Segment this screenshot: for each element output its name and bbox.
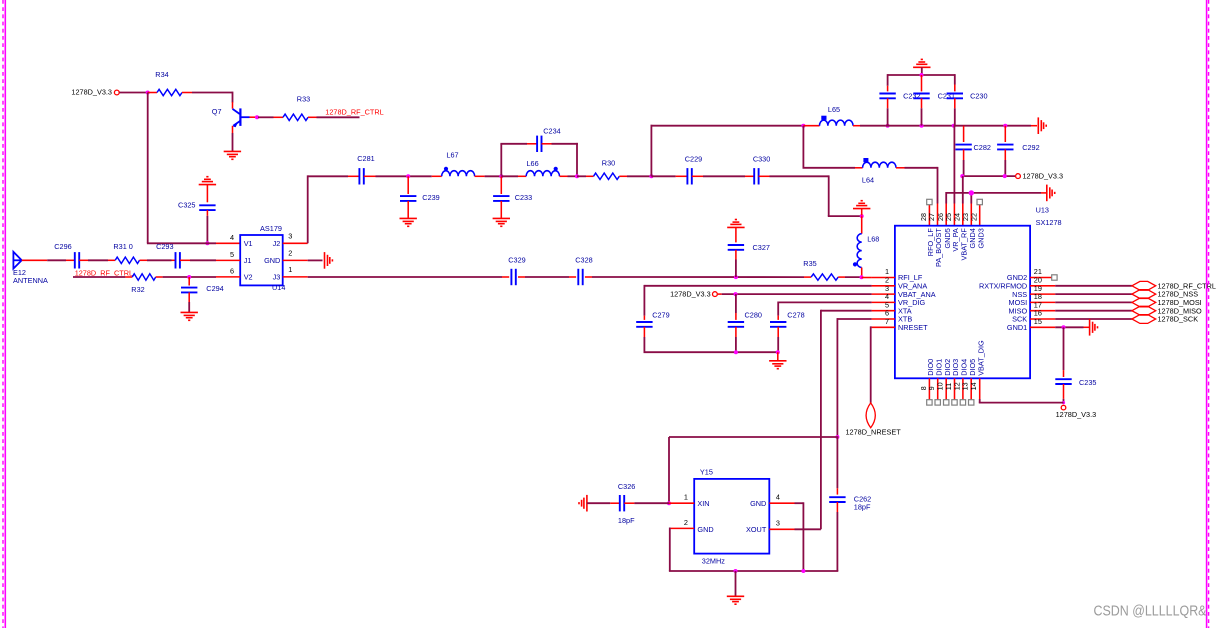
wire C326 to XIN node	[634, 502, 669, 504]
wire node to RFI_LF pin	[862, 277, 872, 279]
junction (GND4 node)	[969, 190, 974, 195]
junction (C292 bottom)	[1003, 174, 1007, 178]
resistor R33	[274, 95, 317, 121]
capacitor C262	[829, 437, 871, 571]
svg-text:C293: C293	[156, 242, 173, 251]
power port 1278D_V3.3 (bottom)	[1056, 405, 1097, 419]
wire XTB run	[837, 318, 871, 437]
svg-text:1278D_RF_CTRL: 1278D_RF_CTRL	[75, 268, 133, 277]
capacitor C232	[879, 86, 920, 126]
pin 6 stub (V2)	[216, 266, 240, 277]
sheet border (left)	[3, 0, 5, 628]
wire C328 to R35	[592, 276, 804, 278]
wire AS179 GND to ground	[308, 259, 323, 261]
wire SCK to port	[1055, 318, 1132, 320]
wire C293 to J1 pin	[190, 259, 216, 261]
capacitor C281	[348, 154, 376, 185]
svg-text:3: 3	[288, 232, 292, 241]
U13 top pin names	[926, 228, 985, 267]
capacitor C233	[493, 176, 532, 218]
svg-text:C325: C325	[178, 200, 195, 209]
Y15 pin 1 stub	[669, 493, 694, 504]
junction (gnd loop / ground)	[734, 569, 738, 573]
svg-text:R31 0: R31 0	[113, 242, 132, 251]
antenna E12	[13, 252, 48, 285]
Y15 pin 2 stub	[671, 518, 695, 529]
svg-text:1278D_SCK: 1278D_SCK	[1158, 315, 1199, 324]
inductor L65	[803, 105, 860, 126]
ground (left of C326)	[579, 495, 587, 512]
svg-text:2: 2	[684, 518, 688, 527]
svg-text:1278D_V3.3: 1278D_V3.3	[670, 290, 711, 299]
junction (C294 node)	[187, 275, 191, 279]
capacitor C231	[913, 75, 955, 126]
svg-text:14: 14	[969, 382, 978, 390]
wire V3.3 to R34	[120, 92, 148, 94]
wire C278 to gnd rail	[777, 337, 779, 352]
pin 3 stub (J2)	[283, 232, 308, 244]
wire MISO to port	[1055, 310, 1132, 312]
junction (C231 bottom)	[920, 124, 924, 128]
junction (gnd loop / GND4)	[801, 569, 805, 573]
resistor R32	[125, 274, 162, 294]
junction (R30/C229 node)	[649, 174, 653, 178]
wire net label to R32	[73, 276, 125, 278]
svg-text:18pF: 18pF	[854, 503, 871, 512]
svg-text:C329: C329	[508, 256, 525, 265]
no-connect (GND2 pin21)	[1052, 275, 1057, 280]
svg-text:C296: C296	[54, 242, 71, 251]
wire R35 to pin1 node	[845, 276, 862, 278]
wire C235 to power node	[1063, 399, 1065, 402]
inductor L64	[855, 158, 905, 185]
svg-text:GND: GND	[750, 499, 766, 508]
wire NSS to port	[1055, 293, 1132, 295]
svg-text:L67: L67	[446, 151, 458, 160]
wire VR_PA column	[953, 126, 955, 226]
junction (R34/V1 node)	[146, 91, 150, 95]
wire Y15 gnd loop	[669, 528, 838, 572]
inductor L66	[501, 159, 577, 177]
svg-text:1278D_RF_CTRL: 1278D_RF_CTRL	[325, 107, 383, 116]
pin RFO_LF stub + no-connect	[927, 199, 932, 225]
junction (C230/VR_PA node)	[952, 124, 956, 128]
svg-text:C234: C234	[543, 126, 560, 135]
capacitor C329	[502, 256, 526, 286]
capacitor C294	[181, 277, 224, 302]
port 1278D_RF_CTRL	[1132, 281, 1216, 290]
svg-text:32MHz: 32MHz	[702, 557, 725, 566]
wire GND1 node down to C235	[1063, 327, 1065, 370]
svg-text:XOUT: XOUT	[746, 525, 767, 534]
wire J2 up to RF line	[308, 175, 348, 243]
capacitor C230	[947, 85, 988, 126]
capacitor C326	[587, 482, 635, 525]
wire to AS179 pin4	[147, 242, 216, 244]
wire base to R33	[258, 116, 274, 118]
svg-text:L65: L65	[828, 105, 840, 114]
capacitor C239	[400, 176, 440, 218]
net label 1278D_RF_CTRL (top)	[325, 107, 383, 116]
wire C234 loop	[500, 143, 578, 176]
junction (C233 node)	[499, 174, 503, 178]
port 1278D_NSS	[1132, 290, 1198, 299]
ground (C294)	[181, 312, 198, 320]
svg-text:XIN: XIN	[697, 499, 709, 508]
wire antenna to C296	[22, 259, 66, 261]
svg-text:1: 1	[288, 265, 292, 274]
junction (C325/V1)	[205, 241, 209, 245]
ground (above L68 node)	[853, 201, 870, 216]
svg-text:C230: C230	[970, 91, 987, 100]
wire R33 to net label	[317, 116, 360, 118]
wire RXTX/RFMOD to port	[1055, 285, 1132, 287]
svg-text:C282: C282	[974, 143, 991, 152]
capacitor C278	[770, 311, 805, 338]
junction (L68/RFI_LF)	[860, 275, 864, 279]
junction (Q7 base node)	[255, 115, 259, 119]
wire R30 node up and across to L65	[651, 125, 804, 177]
ic U13 SX1278 body	[895, 205, 1062, 378]
power port 1278D_V3.3 (mid)	[670, 290, 717, 299]
svg-text:R34: R34	[155, 70, 168, 79]
svg-text:U14: U14	[272, 283, 285, 292]
svg-text:1278D_V3.3: 1278D_V3.3	[71, 88, 112, 97]
svg-text:3: 3	[776, 519, 780, 528]
svg-text:C292: C292	[1022, 143, 1039, 152]
svg-text:1278D_V3.3: 1278D_V3.3	[1056, 410, 1097, 419]
svg-text:C239: C239	[422, 193, 439, 202]
svg-text:SX1278: SX1278	[1036, 218, 1062, 227]
svg-text:U13: U13	[1036, 205, 1049, 214]
svg-text:1278D_NRESET: 1278D_NRESET	[846, 427, 902, 436]
svg-text:C280: C280	[745, 311, 762, 320]
ground (C239)	[400, 218, 417, 226]
ground (crystal)	[727, 596, 744, 604]
wire L64 to PA_BOOST	[905, 167, 938, 226]
svg-text:C235: C235	[1079, 378, 1096, 387]
capacitor C293	[156, 242, 190, 268]
pin GND3 stub + no-connect	[977, 199, 982, 225]
junction (L64 branch)	[801, 124, 805, 128]
svg-text:J1: J1	[244, 256, 252, 265]
junction (VBAT_DIG power node)	[1062, 401, 1065, 404]
svg-text:Q7: Q7	[212, 107, 222, 116]
watermark	[1094, 604, 1207, 620]
svg-text:C326: C326	[618, 482, 635, 491]
svg-text:GND: GND	[697, 525, 713, 534]
svg-text:L68: L68	[867, 235, 879, 244]
wire R31 to C293	[147, 259, 172, 261]
U13 bottom pin numbers	[919, 382, 978, 390]
svg-text:GND1: GND1	[1007, 323, 1027, 332]
svg-text:PA_BOOST: PA_BOOST	[934, 228, 943, 267]
svg-text:ANTENNA: ANTENNA	[13, 276, 48, 285]
U13 right pins	[979, 267, 1055, 332]
ground (GND5/GND4)	[1047, 185, 1055, 202]
wire rail to ground	[777, 352, 779, 360]
svg-text:C327: C327	[753, 243, 770, 252]
svg-text:Y15: Y15	[700, 468, 713, 477]
crystal Y15 body	[694, 468, 769, 566]
junction (C239 node)	[406, 174, 410, 178]
wire C279 to gnd rail	[644, 337, 778, 352]
junction (GND1/C235)	[1062, 325, 1066, 329]
svg-text:18pF: 18pF	[618, 516, 635, 525]
ground (AS179 pin2)	[325, 252, 333, 269]
net label 1278D_RF_CTRL (left)	[75, 268, 133, 277]
wire C296 to R31	[88, 259, 108, 261]
junction (XIN node)	[667, 501, 671, 505]
wire GND5/GND4 to ground	[946, 192, 1046, 226]
svg-text:CSDN @LLLLLQR&: CSDN @LLLLLQR&	[1094, 604, 1207, 620]
junction (C234/L66 node)	[575, 174, 579, 178]
wire C280 to gnd rail	[735, 337, 737, 352]
capacitor C327	[728, 227, 770, 259]
inductor L67	[432, 151, 485, 177]
wire VR_DIG run	[778, 302, 871, 316]
wire R34 to Q7 collector	[192, 92, 233, 103]
wire C327 to RFI line	[735, 260, 737, 278]
ic U14 AS179 body	[240, 224, 285, 292]
U13 top pin numbers	[919, 213, 978, 221]
resistor R34	[148, 70, 192, 96]
port 1278D_MISO	[1132, 306, 1202, 315]
junction (VBAT_RF node)	[960, 174, 964, 178]
svg-text:2: 2	[288, 249, 292, 258]
svg-text:C279: C279	[652, 311, 669, 320]
svg-text:V2: V2	[244, 273, 253, 282]
ground (above C327)	[727, 220, 744, 228]
capacitor C292	[997, 126, 1040, 176]
svg-text:C328: C328	[575, 256, 592, 265]
transistor Q7	[212, 102, 256, 133]
svg-text:C330: C330	[753, 155, 770, 164]
ground (Q7 emitter)	[224, 151, 241, 159]
svg-text:V1: V1	[244, 239, 253, 248]
capacitor C325	[178, 185, 216, 216]
svg-text:C233: C233	[515, 193, 532, 202]
wire L65 to cap bank	[860, 125, 886, 127]
svg-text:GND: GND	[264, 256, 280, 265]
svg-text:C281: C281	[357, 154, 374, 163]
wire MOSI to port	[1055, 301, 1132, 303]
U13 bottom pin names	[926, 340, 985, 376]
junction (C327 node)	[734, 275, 738, 279]
svg-text:R35: R35	[803, 259, 816, 268]
wire C325 to V1 line	[206, 216, 208, 244]
junction (gnd rail C278)	[776, 350, 780, 354]
junction (C232 bottom)	[886, 124, 890, 128]
junction (L68 top node)	[860, 214, 864, 218]
wire V3.3 to VBAT_ANA	[718, 293, 872, 295]
junction (gnd rail C280)	[734, 350, 738, 354]
capacitor C234	[527, 126, 561, 152]
svg-text:GND3: GND3	[976, 228, 985, 248]
junction (XTB/C262 node)	[835, 435, 839, 439]
svg-text:C294: C294	[206, 284, 223, 293]
junction (C280 node)	[734, 292, 738, 296]
wire C330 to L68 node	[770, 175, 862, 216]
svg-text:NRESET: NRESET	[898, 323, 928, 332]
wire C329 to C328	[525, 276, 569, 278]
wire C281 to L67	[376, 175, 432, 177]
svg-text:J2: J2	[273, 239, 281, 248]
AS179 pin names	[244, 239, 281, 281]
port 1278D_MOSI	[1132, 298, 1202, 307]
resistor R31	[108, 242, 147, 263]
svg-text:VBAT_DIG: VBAT_DIG	[976, 340, 985, 376]
svg-text:J3: J3	[273, 273, 281, 282]
svg-text:6: 6	[230, 266, 234, 275]
capacitor C328	[569, 256, 593, 286]
wire VBAT_RF column	[962, 176, 964, 226]
wire cap bank bottom	[886, 125, 954, 127]
pin 4 stub (V1)	[216, 233, 240, 244]
svg-text:C278: C278	[787, 311, 804, 320]
wire XTA run	[795, 310, 872, 530]
capacitor C229	[651, 155, 703, 185]
svg-text:5: 5	[230, 250, 234, 259]
capacitor C235	[1055, 370, 1096, 399]
wire R32 to V2 pin	[163, 276, 216, 278]
junction (C292 top)	[1003, 124, 1007, 128]
ground (GND1)	[1090, 319, 1098, 336]
power port 1278D_V3.3 (top left)	[71, 88, 119, 97]
Y15 pin 3 stub	[769, 519, 794, 530]
svg-text:C229: C229	[685, 155, 702, 164]
no-connect squares (DIO0-DIO5)	[927, 400, 974, 405]
wire GND1 to ground	[1055, 326, 1089, 328]
wire J3 to C329	[308, 276, 502, 278]
svg-text:AS179: AS179	[260, 224, 282, 233]
Y15 pin names	[697, 499, 766, 534]
ground (C233)	[493, 218, 510, 226]
svg-text:27: 27	[927, 213, 936, 221]
power port 1278D_V3.3 (right)	[1016, 172, 1063, 181]
ground (above C325)	[199, 177, 216, 185]
Y15 pin 4 stub	[769, 493, 794, 504]
capacitor C280	[728, 294, 762, 337]
wire Q7 emitter to ground	[232, 133, 234, 151]
U13 left pins	[872, 267, 936, 332]
ground (top rail)	[913, 59, 930, 76]
svg-text:7: 7	[885, 317, 889, 326]
svg-text:15: 15	[1034, 317, 1042, 326]
pin 1 stub (J3)	[283, 265, 308, 277]
svg-text:1278D_V3.3: 1278D_V3.3	[1023, 172, 1064, 181]
sheet border (right)	[1207, 0, 1209, 628]
capacitor C330	[745, 155, 770, 185]
capacitor C296	[54, 242, 88, 268]
wire to crystal ground	[735, 571, 737, 596]
capacitor C279	[636, 311, 669, 338]
V3.3 rail right	[962, 175, 1015, 177]
wire C229 to C330	[703, 175, 745, 177]
capacitor C282	[955, 126, 991, 176]
wire NRESET run	[870, 326, 873, 403]
junction (top rail)	[920, 73, 924, 77]
pin 5 stub (J1)	[216, 250, 240, 261]
svg-text:1: 1	[684, 493, 688, 502]
wire C294 to ground	[188, 302, 190, 312]
wire VBAT_DIG to power node	[979, 399, 1064, 403]
pin 2 stub (GND)	[283, 249, 308, 261]
port 1278D_SCK	[1132, 315, 1198, 324]
wire V3.3 column down to V1	[147, 93, 149, 244]
wire GND4 down	[795, 502, 804, 571]
wire VR_ANA run	[644, 285, 871, 316]
port 1278D_NRESET	[846, 403, 902, 437]
top cap bank rail	[888, 74, 955, 86]
U13 bottom pin stubs	[929, 378, 979, 399]
ground (right of C292 top)	[1031, 117, 1046, 134]
resistor R30	[577, 158, 651, 179]
svg-text:R32: R32	[131, 285, 144, 294]
svg-text:L64: L64	[862, 176, 874, 185]
ground (analog rail)	[769, 361, 786, 369]
wire XTB to XIN	[669, 437, 838, 503]
svg-text:R30: R30	[602, 158, 615, 167]
svg-text:R33: R33	[297, 95, 310, 104]
wire to C282/C292/ground	[954, 125, 1031, 127]
svg-text:4: 4	[230, 233, 234, 242]
svg-text:L66: L66	[527, 159, 539, 168]
inductor L68	[853, 216, 879, 276]
wire L67 to C233 node	[485, 175, 502, 177]
svg-text:22: 22	[969, 213, 978, 221]
resistor R35	[803, 259, 845, 280]
inductor L64 branch	[803, 126, 856, 168]
svg-text:4: 4	[776, 493, 780, 502]
